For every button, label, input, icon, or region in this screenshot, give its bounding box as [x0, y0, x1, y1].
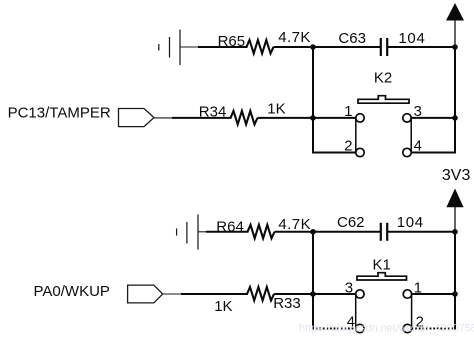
- connector PC13/TAMPER: [119, 109, 155, 127]
- K1 pin 2 contact circle: [403, 324, 411, 332]
- power symbol 3V3 arrow (top): [446, 3, 464, 21]
- svg-text:K2: K2: [374, 70, 392, 87]
- node E junction dot (x313,y231.8): [310, 229, 316, 235]
- svg-text:1K: 1K: [267, 100, 285, 117]
- K1 pin 1 contact circle: [403, 290, 411, 298]
- svg-text:104: 104: [398, 30, 425, 47]
- resistor R34: [231, 111, 258, 125]
- power symbol arrow (bottom, 3V3): [446, 189, 463, 208]
- node D junction dot (x455,y117.9): [452, 115, 458, 121]
- wire: ground pin to R64 (bottom top net): [198, 231, 207, 233]
- node C junction dot (x313,y117.9): [310, 115, 316, 121]
- wire: right vertical net (3V3): [454, 46, 456, 154]
- ground symbol (bottom circuit): [177, 215, 198, 250]
- K2 pin 4 contact circle: [403, 148, 411, 156]
- svg-text:C62: C62: [337, 214, 365, 231]
- K2 internal link pins 1-2: [355, 118, 357, 153]
- svg-text:R33: R33: [273, 295, 301, 312]
- svg-text:104: 104: [397, 214, 424, 231]
- svg-text:https://blog.csdn.net/weixin_4: https://blog.csdn.net/weixin_42007583: [299, 323, 474, 335]
- K1 internal link pins 1-2: [411, 294, 413, 329]
- node G junction dot (x313,y294): [310, 291, 316, 297]
- wire: left vertical net from node A down to K2 pin 2 row: [312, 46, 314, 154]
- wire: R64 to node E: [275, 231, 381, 233]
- wire: bottom-left stub to K2 pin 2: [312, 152, 356, 154]
- svg-text:R64: R64: [216, 219, 244, 236]
- node B junction dot (x455,y47): [452, 44, 458, 50]
- resistor R33: [247, 287, 274, 301]
- wire: K1 pin 2 to right vertical (dotted under watermark): [412, 328, 456, 330]
- K2 pin 1 contact circle: [356, 114, 364, 122]
- svg-text:R65: R65: [218, 33, 246, 50]
- node A junction dot (x313,y47): [310, 44, 316, 50]
- K2 pin 2 contact circle: [356, 148, 364, 156]
- node H junction dot (x455,y294): [452, 291, 458, 297]
- connector PA0/WKUP: [128, 285, 163, 303]
- wire: ground pin to R65 (top net): [180, 46, 199, 48]
- svg-text:4.7K: 4.7K: [278, 216, 311, 233]
- svg-text:R34: R34: [199, 104, 227, 121]
- wire: C63 to node B: [388, 46, 455, 48]
- K1 pin 3 contact circle: [356, 290, 364, 298]
- wire: C62 to node F: [388, 231, 455, 233]
- pushbutton K1 actuator bar: [357, 273, 407, 280]
- wire: right vertical net (bottom 3V3): [454, 231, 456, 330]
- svg-text:2: 2: [344, 139, 352, 155]
- svg-text:1K: 1K: [214, 298, 232, 315]
- ground symbol (top circuit): [159, 30, 180, 66]
- svg-text:PA0/WKUP: PA0/WKUP: [34, 283, 110, 300]
- wire: R65 to node A: [274, 46, 381, 48]
- pushbutton K2 actuator bar: [358, 96, 409, 104]
- wire: K2 pin 4 to right vertical: [411, 152, 456, 154]
- svg-text:PC13/TAMPER: PC13/TAMPER: [8, 104, 111, 121]
- K2 pin 3 contact circle: [403, 114, 411, 122]
- wire: left vertical net from node E down to K1 pin 4 row: [312, 231, 314, 330]
- capacitor C62: [380, 223, 382, 241]
- svg-text:3: 3: [345, 281, 353, 297]
- wire: R34 to node C and on to K2 pin 1: [258, 117, 356, 119]
- resistor R65: [247, 40, 274, 54]
- K1 pin 4 contact circle: [356, 324, 364, 332]
- wire: connector pin to R33: [163, 293, 182, 295]
- svg-text:4.7K: 4.7K: [278, 29, 311, 46]
- K1 internal link pins 3-4: [355, 294, 357, 329]
- wire: K1 pin 1 to node H: [412, 293, 455, 295]
- capacitor C63: [380, 38, 382, 56]
- wire: bottom-left stub to K1 pin 4 (dotted under watermark): [312, 328, 356, 330]
- wire: R33 to node G and on to K1 pin 3: [274, 293, 356, 295]
- svg-text:3V3: 3V3: [442, 167, 471, 184]
- wire: K2 pin 3 to node D: [411, 117, 455, 119]
- wire: connector pin to R34: [154, 117, 173, 119]
- node F junction dot (x455,y231.8): [452, 229, 458, 235]
- resistor R64: [248, 225, 275, 239]
- svg-text:K1: K1: [373, 257, 391, 274]
- svg-text:1: 1: [344, 104, 352, 120]
- K2 internal link pins 3-4: [410, 118, 412, 153]
- svg-text:C63: C63: [338, 30, 366, 47]
